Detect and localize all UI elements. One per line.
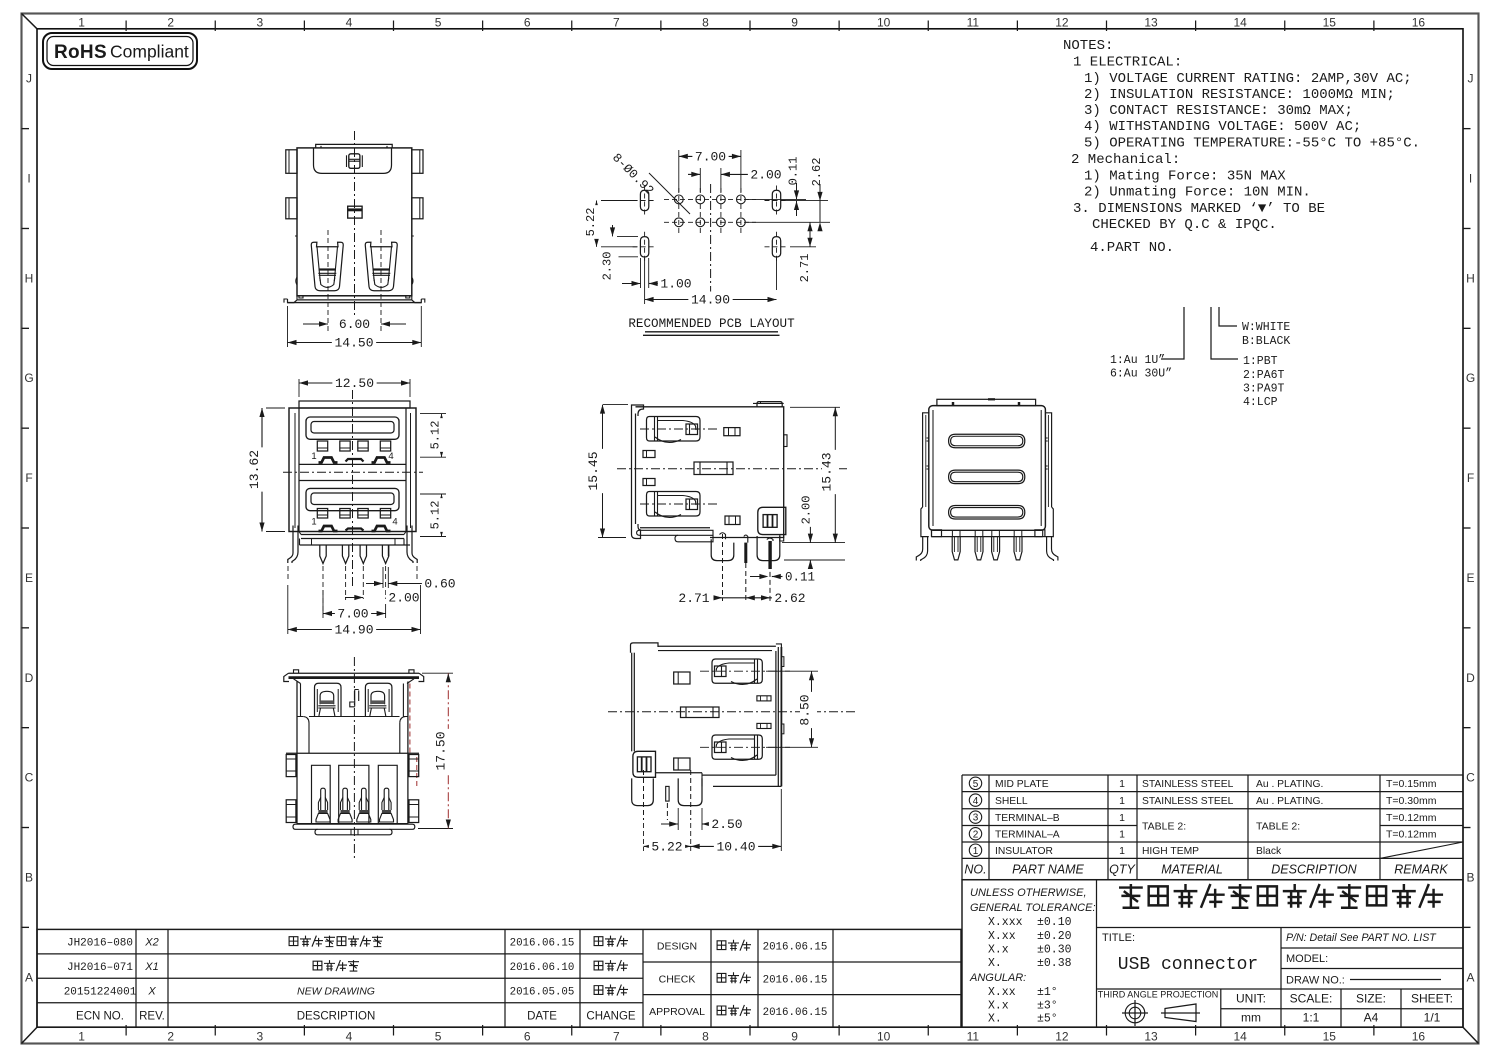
lower stub right [725,516,740,525]
svg-text:2:PA6T: 2:PA6T [1243,369,1285,382]
svg-text:1:Au 1U”: 1:Au 1U” [1110,354,1165,367]
svg-text:20151224001: 20151224001 [64,987,137,999]
vent slots [949,434,1025,448]
body outline [636,407,784,538]
svg-text:3) CONTACT RESISTANCE: 30mΩ MA: 3) CONTACT RESISTANCE: 30mΩ MAX; [1084,103,1353,119]
vertical centerline [353,657,355,860]
svg-text:Black: Black [1256,846,1282,857]
hole column centerline [740,188,742,233]
left bent leg [916,537,922,561]
svg-text:1: 1 [78,16,85,30]
svg-text:7: 7 [613,1030,620,1044]
svg-text:D: D [25,671,34,685]
dim 2.71 (pcb) [776,256,778,290]
pad hole [674,195,683,204]
mid plate profile [694,462,733,475]
svg-text:GENERAL TOLERANCE:: GENERAL TOLERANCE: [970,902,1096,914]
svg-text:TITLE:: TITLE: [1102,932,1135,944]
dim 1.00 [640,258,642,288]
VIEW: bottom view middle (zones D-C) [608,643,858,855]
svg-text:NEW DRAWING: NEW DRAWING [297,986,375,998]
top left tab [631,643,659,653]
upper tongue [311,422,394,434]
middle pin [666,786,669,801]
svg-text:13: 13 [1144,1030,1158,1044]
rear pins [952,537,960,560]
svg-text:14.90: 14.90 [691,293,730,308]
dim 5.22 [601,200,637,202]
svg-text:T=0.30mm: T=0.30mm [1386,795,1437,807]
upper latch [647,417,701,442]
svg-text:INSULATOR: INSULATOR [995,846,1053,857]
svg-text:H: H [1466,271,1475,285]
pin guides [951,530,953,536]
left contact cup [311,242,343,291]
svg-text:mm: mm [1241,1011,1261,1025]
mid seam lines [299,463,406,465]
pad hole [737,218,746,227]
seam at 753 [286,752,419,754]
svg-text:1:1: 1:1 [1303,1011,1320,1025]
svg-text:12: 12 [1055,16,1069,30]
right mount leg [412,526,417,564]
svg-text:±1°: ±1° [1037,986,1058,999]
svg-text:5.12: 5.12 [429,501,443,530]
svg-text:THIRD ANGLE PROJECTION: THIRD ANGLE PROJECTION [1098,990,1219,1000]
svg-text:6: 6 [524,1030,531,1044]
svg-text:±3°: ±3° [1037,1000,1058,1013]
dims 5.22 and 10.40 [643,823,645,851]
svg-text:7: 7 [613,16,620,30]
right flange strip [1045,413,1053,537]
svg-text:2016.06.15: 2016.06.15 [510,938,575,950]
svg-text:1) VOLTAGE CURRENT RATING: 2AM: 1) VOLTAGE CURRENT RATING: 2AMP,30V AC; [1084,71,1412,87]
left contact centerline [327,230,329,331]
right bent leg [1052,537,1058,561]
svg-text:E: E [25,571,33,585]
svg-text:5.12: 5.12 [429,421,443,450]
upper clips [319,458,338,463]
svg-text:T=0.12mm: T=0.12mm [1386,829,1437,841]
svg-text:0.11: 0.11 [787,157,801,186]
top cap [299,401,410,408]
svg-text:1: 1 [1119,845,1125,857]
dim 2.00 [345,597,363,599]
leg 1 [711,539,734,560]
terminal pins [320,545,326,564]
left mount leg [288,526,293,564]
svg-text:D: D [1466,671,1475,685]
VIEW: rear view (right, zones G-F) [916,399,1058,561]
dim 2.50 [677,808,679,830]
svg-text:NOTES:: NOTES: [1063,38,1113,54]
bottom latch [712,735,762,759]
svg-text:G: G [1466,371,1475,385]
svg-text:10: 10 [877,16,891,30]
VIEW: bottom view left (zones D-C) [284,657,453,860]
lower tongue [311,493,394,505]
svg-text:3. DIMENSIONS MARKED ‘▼’ TO BE: 3. DIMENSIONS MARKED ‘▼’ TO BE [1073,201,1325,217]
dim 2.62 [812,155,828,189]
svg-text:RoHS: RoHS [54,42,107,63]
svg-text:1 ELECTRICAL:: 1 ELECTRICAL: [1073,55,1182,71]
svg-text:1: 1 [1119,778,1125,790]
horizontal centerline [617,468,848,470]
svg-text:1.00: 1.00 [660,277,691,292]
svg-text:DRAW NO.:: DRAW NO.: [1286,975,1345,987]
svg-text:4: 4 [392,517,397,528]
svg-text:1: 1 [1119,829,1125,841]
svg-text:12: 12 [1055,1030,1069,1044]
svg-text:2 Mechanical:: 2 Mechanical: [1071,152,1180,168]
svg-text:A4: A4 [1364,1011,1379,1025]
svg-text:16: 16 [1412,1030,1426,1044]
svg-text:SIZE:: SIZE: [1356,992,1386,1006]
svg-text:2.50: 2.50 [711,817,742,832]
right edge bump [784,435,787,447]
svg-text:A: A [1466,970,1474,984]
upper port opening [306,417,399,439]
svg-text:REV.: REV. [139,1010,165,1022]
svg-text:17.50: 17.50 [434,731,449,770]
svg-text:1:PBT: 1:PBT [1243,355,1278,368]
svg-text:2: 2 [167,16,174,30]
svg-text:I: I [1469,172,1472,186]
svg-text:1/1: 1/1 [1424,1011,1441,1025]
svg-text:9: 9 [791,16,798,30]
terminal pins [321,788,326,810]
dim 5.12 upper [420,413,446,415]
top latch [712,659,762,683]
dim 0.11 [789,154,805,188]
left tabs [286,150,297,174]
svg-text:15: 15 [1323,1030,1337,1044]
pin4 second line [387,545,389,556]
hole column centerline [699,188,701,233]
svg-text:2.71: 2.71 [678,591,709,606]
center line [354,131,356,315]
svg-text:8: 8 [702,16,709,30]
center key [350,690,359,707]
lower contacts [317,509,327,519]
terminal slot boxes [312,765,331,823]
right latch chair [365,683,392,716]
part-number option tree [1161,307,1184,359]
front plate [631,414,633,525]
svg-text:3: 3 [973,813,979,824]
dim 15.45 [603,404,628,406]
svg-text:X.x: X.x [988,1000,1009,1013]
svg-text:2016.05.05: 2016.05.05 [510,987,575,999]
plate bottom hook [632,524,641,539]
dim 2.30 [617,235,638,237]
svg-text:Au . PLATING.: Au . PLATING. [1256,779,1323,790]
left latch chair [315,683,342,716]
svg-text:4: 4 [346,16,353,30]
svg-text:X.xx: X.xx [988,986,1016,999]
svg-text:5: 5 [435,16,442,30]
svg-text:5: 5 [435,1030,442,1044]
svg-text:15.43: 15.43 [820,452,835,491]
svg-text:0.60: 0.60 [424,577,455,592]
pad hole [717,195,726,204]
base step right [780,535,784,541]
pad hole [717,218,726,227]
inner edge lines [932,410,934,526]
svg-text:3: 3 [256,1030,263,1044]
pad hole [674,218,683,227]
svg-text:QTY: QTY [1109,863,1136,877]
mid body box [303,717,309,754]
svg-text:13.62: 13.62 [247,450,262,489]
bottom base [297,823,408,825]
svg-text:SHELL: SHELL [995,796,1028,807]
svg-text:2016.06.15: 2016.06.15 [763,974,828,986]
svg-text:±0.38: ±0.38 [1037,957,1072,970]
svg-text:MODEL:: MODEL: [1286,953,1328,965]
mid body rounded [297,716,408,718]
hole row centerlines [664,198,756,200]
oval slot [772,190,780,210]
svg-text:F: F [25,471,32,485]
pad hole [696,218,705,227]
svg-text:C: C [1466,771,1475,785]
dim 13.62 [266,407,285,409]
lower clips [319,526,338,531]
svg-text:PART NAME: PART NAME [1012,863,1084,877]
diagonal in remark cell [1380,842,1463,858]
right tabs [412,150,423,174]
dim 5.12 lower [420,493,446,495]
svg-text:ANGULAR:: ANGULAR: [969,972,1026,984]
svg-text:2.62: 2.62 [774,591,805,606]
dim 15.43 [790,406,840,408]
svg-text:2016.06.15: 2016.06.15 [763,1007,828,1019]
svg-text:1: 1 [1119,795,1125,807]
svg-text:11: 11 [967,16,980,30]
svg-text:CHECKED BY Q.C & IPQC.: CHECKED BY Q.C & IPQC. [1092,217,1277,233]
upper stub right [724,428,740,436]
svg-text:CHANGE: CHANGE [586,1010,636,1022]
top flange [289,672,420,674]
svg-text:2: 2 [973,829,979,840]
right edge nub [412,235,414,237]
lower latch [647,492,701,517]
svg-text:TERMINAL–B: TERMINAL–B [995,813,1060,824]
leg 1 [632,778,654,805]
svg-text:2016.06.10: 2016.06.10 [510,962,575,974]
dim 7.00 [322,590,324,618]
bottom flange [297,295,412,297]
svg-text:2.00: 2.00 [800,496,814,525]
svg-text:UNIT:: UNIT: [1236,992,1266,1006]
svg-text:±0.10: ±0.10 [1037,916,1072,929]
svg-text:C: C [25,771,34,785]
svg-text:15: 15 [1323,16,1337,30]
svg-text:1: 1 [311,517,316,528]
svg-text:15.45: 15.45 [586,451,601,490]
center line vertical [352,390,354,586]
corner diagonals [22,14,38,29]
svg-text:2.30: 2.30 [601,252,615,281]
svg-text:J: J [1468,72,1474,86]
side tabs right [409,755,419,777]
svg-text:4: 4 [388,451,393,462]
plate stub rects [643,451,655,458]
BOM parts table [962,774,1463,776]
svg-text:5: 5 [973,779,979,790]
svg-text:RECOMMENDED PCB LAYOUT: RECOMMENDED PCB LAYOUT [628,317,795,331]
svg-text:±5°: ±5° [1037,1013,1058,1026]
svg-text:B: B [25,870,33,884]
svg-text:JH2016–071: JH2016–071 [67,962,133,974]
svg-text:14: 14 [1234,1030,1248,1044]
dim 17.50 [422,672,453,674]
svg-text:10: 10 [877,1030,891,1044]
svg-text:0.11: 0.11 [785,571,815,585]
right contact cup [365,242,397,291]
svg-text:STAINLESS STEEL: STAINLESS STEEL [1142,779,1234,790]
svg-text:STAINLESS STEEL: STAINLESS STEEL [1142,796,1234,807]
svg-text:6:Au 30U”: 6:Au 30U” [1110,368,1172,381]
svg-text:12.50: 12.50 [335,376,374,391]
third-angle projection symbol [1125,1003,1145,1023]
svg-text:5.22: 5.22 [584,208,598,237]
svg-text:±0.20: ±0.20 [1037,930,1072,943]
svg-text:±0.30: ±0.30 [1037,944,1072,957]
svg-text:Au . PLATING.: Au . PLATING. [1256,796,1323,807]
red hidden lines [409,684,411,754]
svg-text:J: J [26,72,32,86]
svg-text:NO.: NO. [964,863,986,877]
svg-text:13: 13 [1144,16,1158,30]
svg-text:CHECK: CHECK [659,973,696,985]
left edge nub [295,235,297,237]
VIEW: side section view (middle, zones G-F) [586,402,848,606]
oval slot [640,237,648,257]
hole column centerline [678,188,680,233]
svg-text:X: X [147,986,156,998]
small right stubs [757,696,771,701]
top right bump [757,402,782,407]
svg-text:5.22: 5.22 [651,840,682,855]
svg-text:2) Unmating Force: 10N MIN.: 2) Unmating Force: 10N MIN. [1084,185,1311,201]
svg-text:X.: X. [988,957,1002,970]
title block [962,880,1463,1027]
dim 2.00 [699,168,701,192]
side flange lines [298,408,300,532]
svg-text:X.xxx: X.xxx [988,916,1023,929]
svg-text:1) Mating Force: 35N MAX: 1) Mating Force: 35N MAX [1084,169,1286,185]
company name pseudo-CJK [1119,884,1143,908]
right plate bumps [781,657,784,667]
dim 0.11 (side) [750,576,767,578]
side tabs left [286,755,296,777]
lower body walls [296,753,298,823]
svg-text:ECN NO.: ECN NO. [76,1010,124,1022]
dim 0.60 [382,567,384,588]
dim 6.00 [303,323,328,325]
left flange strip [921,413,929,537]
svg-text:UNLESS OTHERWISE,: UNLESS OTHERWISE, [970,887,1087,899]
svg-text:DESCRIPTION: DESCRIPTION [1271,863,1357,877]
svg-text:Compliant: Compliant [110,42,189,62]
leg 2 [678,778,702,805]
top small notch on body [753,402,784,404]
pad hole [696,195,705,204]
svg-text:X1: X1 [144,961,158,973]
svg-text:I: I [27,172,30,186]
svg-text:3: 3 [256,16,263,30]
svg-text:2: 2 [167,1030,174,1044]
plate top hook [632,405,644,416]
top edge [658,645,776,647]
svg-text:HIGH TEMP: HIGH TEMP [1142,846,1199,857]
top tab [316,144,393,148]
svg-text:G: G [24,371,33,385]
svg-text:W:WHITE: W:WHITE [1242,321,1290,334]
svg-text:B:BLACK: B:BLACK [1242,335,1290,348]
svg-text:1: 1 [973,846,979,857]
svg-text:T=0.12mm: T=0.12mm [1386,812,1437,824]
top clip [349,154,360,169]
left plate [631,653,633,752]
VIEW: recommended PCB layout [584,148,830,335]
svg-text:P/N: Detail See PART NO. LIST: P/N: Detail See PART NO. LIST [1286,932,1437,944]
svg-text:6.00: 6.00 [339,317,370,332]
svg-text:1: 1 [311,451,316,462]
svg-text:4) WITHSTANDING VOLTAGE: 500V: 4) WITHSTANDING VOLTAGE: 500V AC; [1084,119,1361,135]
svg-text:4: 4 [973,796,979,807]
svg-text:7.00: 7.00 [337,607,368,622]
svg-text:14.50: 14.50 [334,336,373,351]
svg-text:8: 8 [702,1030,709,1044]
VIEW: front view dual-port USB (zones G-F) [247,375,458,638]
svg-text:USB connector: USB connector [1118,955,1258,975]
svg-text:4:LCP: 4:LCP [1243,396,1278,409]
middle clip [348,206,362,218]
svg-text:E: E [1466,571,1474,585]
dim 2.00 (side) [784,559,845,561]
post box [633,751,656,777]
svg-text:REMARK: REMARK [1394,863,1448,877]
dim 14.50 [287,306,289,347]
svg-text:4: 4 [346,1030,353,1044]
hole column centerline [720,188,722,233]
dim 14.90 [287,585,289,634]
svg-text:5) OPERATING TEMPERATURE:-55°C: 5) OPERATING TEMPERATURE:-55°C TO +85°C. [1084,136,1420,152]
right plate [775,651,777,775]
feet tabs [932,530,942,537]
base plate [932,536,1043,538]
svg-text:8.50: 8.50 [798,694,813,725]
svg-text:2.00: 2.00 [750,168,781,183]
mid plate profile [681,707,720,718]
oval slot [640,190,648,210]
svg-text:TABLE 2:: TABLE 2: [1142,820,1186,832]
svg-text:2.62: 2.62 [810,158,824,187]
body bottom left portion [640,527,710,529]
svg-text:3:PA9T: 3:PA9T [1243,383,1285,396]
svg-text:MID PLATE: MID PLATE [995,779,1049,790]
oval slot [772,237,780,257]
svg-text:T=0.15mm: T=0.15mm [1386,778,1437,790]
svg-text:6: 6 [524,16,531,30]
svg-text:11: 11 [967,1030,980,1044]
svg-text:TABLE 2:: TABLE 2: [1256,821,1300,833]
RoHS Compliant badge [43,33,197,69]
svg-text:DESCRIPTION: DESCRIPTION [297,1010,376,1022]
